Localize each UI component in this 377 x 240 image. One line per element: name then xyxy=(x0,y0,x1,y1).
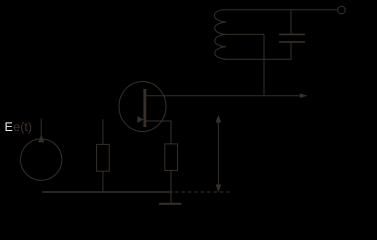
wire tap node down to output line xyxy=(263,34,265,95)
measurement arrow shaft xyxy=(217,117,219,190)
wire emitter/source lead to right resistor xyxy=(146,121,171,144)
transistor gate arrowhead xyxy=(137,116,143,123)
ground bar xyxy=(159,203,182,205)
wire source top lead xyxy=(40,119,42,140)
resistor R1 (left) body xyxy=(97,144,110,171)
transistor V1 envelope circle xyxy=(119,82,166,132)
source G1 circle xyxy=(21,139,62,180)
wire top rail to output terminal xyxy=(222,9,338,11)
measurement arrow down head xyxy=(216,185,222,193)
dashed reference line xyxy=(175,191,231,193)
transistor base/channel bar xyxy=(143,89,146,127)
wire right resistor to ground rail xyxy=(170,171,172,193)
ground rail wire xyxy=(42,191,173,193)
capacitor C1 bottom plate xyxy=(279,41,305,43)
wire coil tap to node xyxy=(226,33,264,35)
svg-text:E: E xyxy=(5,120,13,134)
source up arrowhead xyxy=(38,135,44,142)
resistor R2 (right) body xyxy=(165,144,178,171)
wire drain/output line with arrow xyxy=(146,95,306,97)
svg-text:e(t): e(t) xyxy=(13,120,32,134)
output terminal circle xyxy=(338,6,346,14)
inductor L1 (tapped coil, 4 arcs) xyxy=(214,10,226,60)
output line arrowhead xyxy=(300,93,308,98)
capacitor C1 top plate xyxy=(279,33,305,35)
wire left resistor to ground rail xyxy=(102,171,104,192)
wire gate lead above left resistor xyxy=(102,119,104,144)
wire ground stub below rail xyxy=(170,192,172,203)
wire coil bottom to capacitor bottom xyxy=(224,43,291,60)
measurement arrow up head xyxy=(216,115,222,123)
wire capacitor top to top rail xyxy=(290,10,292,34)
